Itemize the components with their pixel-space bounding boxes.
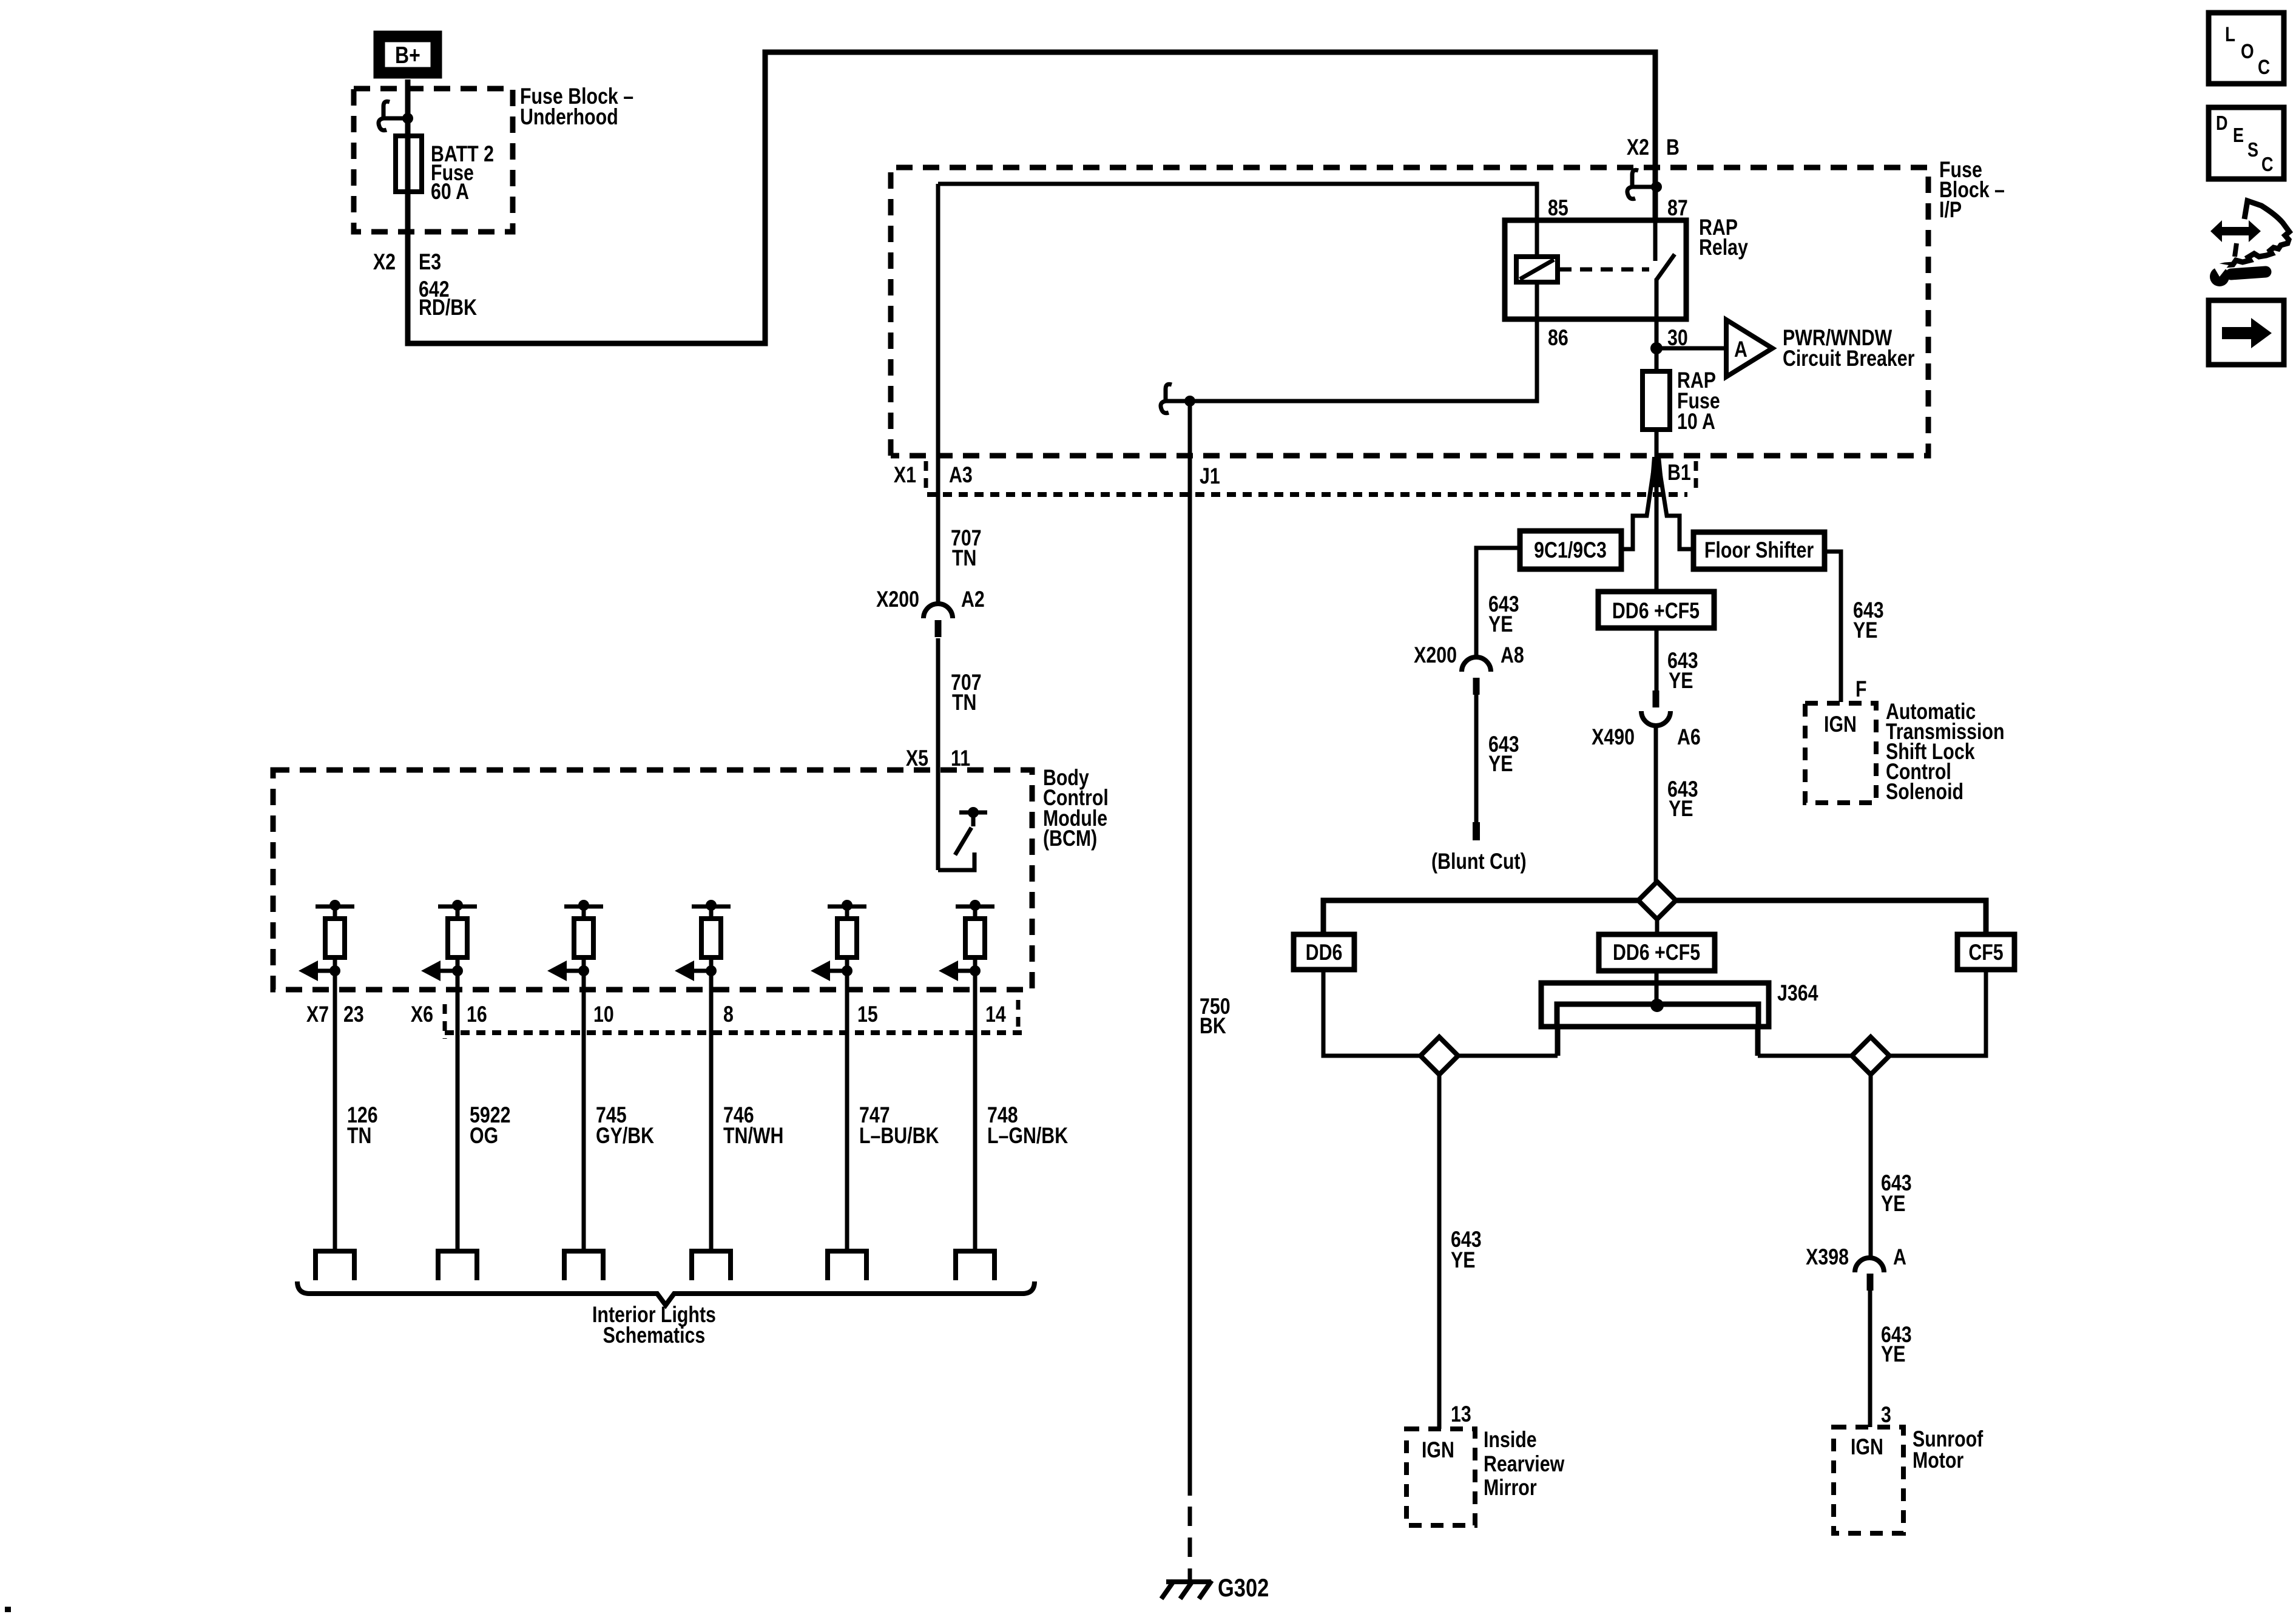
output arrow 5 [811, 960, 853, 981]
wire J1 to G302 [1188, 401, 1192, 1496]
svg-text:A: A [1734, 337, 1747, 362]
wire label 643 YE [1881, 1170, 1912, 1217]
svg-text:23: 23 [343, 1002, 364, 1027]
svg-text:X1: X1 [894, 462, 916, 488]
connector X398 A symbol [1855, 1258, 1884, 1291]
svg-text:Relay: Relay [1699, 235, 1748, 260]
svg-text:YE: YE [1488, 612, 1513, 637]
svg-text:X200: X200 [876, 587, 919, 612]
svg-text:DD6 +CF5: DD6 +CF5 [1613, 940, 1700, 965]
connector X200 A2 symbol [923, 604, 953, 637]
svg-text:IGN: IGN [1422, 1437, 1454, 1463]
wire 748 L–GN/BK [973, 957, 977, 1251]
svg-text:A2: A2 [961, 587, 985, 612]
svg-text:GY/BK: GY/BK [596, 1123, 655, 1149]
svg-text:DD6 +CF5: DD6 +CF5 [1612, 598, 1700, 624]
svg-text:A: A [1893, 1244, 1906, 1270]
icon diagnostic jumper [2210, 201, 2289, 286]
svg-text:A8: A8 [1501, 643, 1524, 668]
page mark dot [5, 1607, 11, 1612]
svg-text:Motor: Motor [1913, 1448, 1963, 1473]
pin 13 label [1451, 1402, 1471, 1427]
BCM pin labels X7 23 X6 16 10 8 15 14 [306, 1000, 1018, 1039]
wire label 745 GY/BK [596, 1102, 655, 1149]
net box CF5 [1957, 934, 2014, 970]
connector X5 pin 11 labels [906, 746, 970, 771]
label RAP Fuse 10 A [1677, 368, 1720, 434]
wire label 642 RD/BK [419, 277, 478, 320]
splice pack J364 [1541, 983, 1769, 1056]
wire A8 to blunt cut [1474, 695, 1479, 822]
svg-text:J1: J1 [1200, 464, 1220, 489]
wire label 750 BK [1200, 994, 1231, 1039]
output arrow 1 [299, 960, 340, 981]
BCM output 1: node bar [316, 900, 354, 911]
svg-text:B1: B1 [1667, 460, 1691, 485]
wire 5922 OG [456, 957, 460, 1251]
branch wedge at B1 [1620, 457, 1693, 549]
svg-text:X2: X2 [373, 249, 396, 275]
svg-text:YE: YE [1853, 618, 1877, 643]
svg-text:YE: YE [1881, 1191, 1905, 1217]
svg-text:RD/BK: RD/BK [419, 295, 478, 320]
net box DD6 [1294, 934, 1354, 970]
connector X1 pin A3 labels [894, 461, 973, 490]
svg-text:Floor Shifter: Floor Shifter [1704, 538, 1814, 563]
svg-text:DD6: DD6 [1306, 940, 1343, 965]
connector pin B1 label [1667, 460, 1696, 490]
svg-text:(Blunt Cut): (Blunt Cut) [1431, 849, 1527, 874]
svg-text:Schematics: Schematics [603, 1323, 706, 1348]
splice diamond right [1852, 1037, 1889, 1075]
BCM output 5: node bar [828, 900, 866, 911]
wire label 643 YE [1881, 1322, 1912, 1367]
power feed B+ terminal [379, 36, 436, 73]
svg-text:3: 3 [1881, 1402, 1891, 1428]
wire right diamond to CF5 [1889, 970, 1986, 1056]
fuse block I/P dashed box [891, 167, 1928, 456]
svg-text:87: 87 [1667, 195, 1688, 221]
label J364 [1777, 981, 1818, 1006]
svg-text:YE: YE [1669, 796, 1693, 822]
connector X200 pin A8 labels [1414, 643, 1524, 668]
svg-text:X490: X490 [1592, 724, 1635, 750]
fuse RAP 10A [1643, 371, 1670, 430]
terminal 1 [316, 1251, 354, 1280]
svg-text:X7: X7 [306, 1002, 329, 1027]
wire to relay pin 85 [938, 184, 1537, 870]
output arrow 6 [939, 960, 981, 981]
blunt cut terminal [1473, 822, 1480, 840]
label BATT 2 Fuse 60 A [431, 141, 494, 204]
wire label 643 YE [1451, 1227, 1482, 1273]
svg-text:C: C [2258, 55, 2270, 78]
wire to inside rearview mirror [1437, 1075, 1442, 1429]
relay switch blade pin 87 to 30 [1655, 220, 1675, 319]
resistor R4 [701, 906, 721, 957]
wire 126 TN [333, 957, 337, 1251]
label PWR/WNDW Circuit Breaker [1783, 325, 1914, 371]
label RAP Relay [1699, 215, 1748, 260]
fuse BATT 2 60A [396, 136, 422, 192]
wire pin 30 down [1655, 319, 1659, 371]
net box DD6 +CF5 lower [1599, 919, 1715, 971]
svg-text:X6: X6 [411, 1002, 433, 1027]
svg-text:IGN: IGN [1824, 712, 1857, 737]
wire into J364 [1655, 971, 1659, 1005]
wire label 747 L–BU/BK [859, 1102, 939, 1149]
wire 745 GY/BK [582, 957, 586, 1251]
terminal clip at B+ feed [379, 101, 413, 130]
svg-text:O: O [2241, 39, 2254, 62]
wire label 707 TN upper [951, 525, 982, 571]
splice diamond top [1638, 882, 1676, 919]
resistor R3 [574, 906, 593, 957]
icon DESC [2209, 107, 2284, 179]
resistor R6 [965, 906, 985, 957]
wire left diamond to J364 [1458, 1054, 1558, 1058]
connector X2 pin E3 labels [373, 249, 441, 275]
BCM internal switch [938, 807, 987, 870]
connector X200 A8 symbol [1462, 657, 1491, 695]
dashed wire to ground [1188, 1507, 1192, 1582]
wire Floor Shifter to solenoid [1825, 552, 1841, 702]
label Fuse Block I/P [1939, 157, 2005, 223]
svg-text:10: 10 [593, 1002, 614, 1027]
wire X490 to splice diamond [1654, 726, 1658, 882]
svg-text:IGN: IGN [1851, 1434, 1883, 1460]
net box 9C1/9C3 [1520, 531, 1621, 569]
svg-text:B: B [1666, 135, 1680, 160]
splice diamond left [1420, 1037, 1458, 1075]
svg-text:X200: X200 [1414, 643, 1457, 668]
BCM connector row dashed boundary [445, 1030, 1022, 1035]
wire DD6 to left diamond [1323, 970, 1420, 1056]
svg-text:BK: BK [1200, 1013, 1226, 1039]
terminal 5 [828, 1251, 866, 1280]
svg-text:YE: YE [1488, 751, 1513, 777]
wire fuse to B1 [1655, 430, 1659, 457]
label (Blunt Cut) [1431, 849, 1527, 874]
svg-text:L–BU/BK: L–BU/BK [859, 1123, 939, 1149]
BCM output 4: node bar [692, 900, 731, 911]
svg-text:L: L [2225, 22, 2235, 46]
svg-text:YE: YE [1881, 1342, 1905, 1367]
svg-text:TN: TN [952, 690, 976, 715]
fuse block underhood dashed box [354, 89, 513, 232]
svg-text:X2: X2 [1627, 135, 1649, 160]
svg-text:(BCM): (BCM) [1043, 826, 1097, 851]
wire 9C1/9C3 to X200 A8 [1476, 548, 1520, 658]
svg-text:85: 85 [1548, 195, 1568, 221]
terminal 3 [564, 1251, 603, 1280]
wire label 643 YE [1488, 732, 1519, 777]
svg-text:A6: A6 [1677, 724, 1701, 750]
icon LOC [2209, 13, 2284, 84]
splice J1 clip and junction [1161, 384, 1195, 413]
output arrow 2 [421, 960, 463, 981]
svg-text:B+: B+ [395, 42, 420, 69]
svg-text:13: 13 [1451, 1402, 1471, 1427]
wire to X398 [1869, 1075, 1873, 1258]
body control module dashed box [273, 770, 1032, 990]
svg-text:F: F [1855, 677, 1867, 702]
svg-text:J364: J364 [1777, 981, 1818, 1006]
connector X2 pin B labels [1627, 135, 1680, 160]
output arrow 4 [675, 960, 717, 981]
resistor R5 [837, 906, 857, 957]
svg-text:16: 16 [467, 1002, 487, 1027]
wire label 643 YE [1853, 598, 1884, 643]
svg-text:Circuit Breaker: Circuit Breaker [1783, 346, 1914, 371]
label Fuse Block Underhood [520, 84, 633, 130]
svg-text:I/P: I/P [1939, 197, 1962, 223]
svg-text:E3: E3 [419, 249, 441, 275]
relay actuation dashed link [1559, 268, 1649, 272]
svg-text:D: D [2216, 113, 2228, 135]
svg-text:S: S [2247, 140, 2258, 161]
label Inside Rearview Mirror [1484, 1427, 1565, 1501]
svg-text:8: 8 [723, 1002, 734, 1027]
terminal 2 [438, 1251, 477, 1280]
svg-text:86: 86 [1548, 325, 1568, 351]
terminal 6 [956, 1251, 994, 1280]
svg-text:L–GN/BK: L–GN/BK [987, 1123, 1069, 1149]
svg-text:TN/WH: TN/WH [723, 1123, 783, 1149]
wire label 707 TN lower [951, 670, 982, 715]
label G302 [1218, 1574, 1269, 1602]
wire label 5922 OG [470, 1102, 510, 1149]
connector X490 A6 symbol [1641, 690, 1670, 726]
svg-text:10 A: 10 A [1677, 409, 1715, 434]
splice label J1 [1200, 464, 1220, 489]
PWR/WNDW circuit breaker triangle A [1726, 320, 1772, 377]
BCM output 6: node bar [956, 900, 994, 911]
svg-text:15: 15 [857, 1002, 878, 1027]
wire label 748 L–GN/BK [987, 1102, 1069, 1149]
bus wire DD6 to CF5 [1323, 900, 1986, 934]
svg-text:TN: TN [347, 1123, 371, 1149]
connector X490 pin A6 labels [1592, 724, 1701, 750]
svg-text:Rearview: Rearview [1484, 1451, 1565, 1477]
pin F label [1855, 677, 1867, 702]
svg-text:X398: X398 [1806, 1244, 1849, 1270]
svg-text:14: 14 [985, 1002, 1006, 1027]
pin 3 label [1881, 1402, 1891, 1428]
svg-text:G302: G302 [1218, 1574, 1269, 1602]
relay pin labels 86 30 [1548, 325, 1688, 351]
icon forward arrow [2209, 300, 2284, 365]
relay coil [1516, 220, 1558, 319]
wire B+ to BATT 2 fuse trunk [408, 52, 1655, 343]
BCM output 3: node bar [564, 900, 603, 911]
resistor R1 [325, 906, 345, 957]
svg-text:OG: OG [470, 1123, 498, 1149]
wire B1 to DD6+CF5 [1655, 458, 1659, 592]
svg-text:YE: YE [1669, 668, 1693, 694]
wire DD6+CF5 to X490 [1655, 628, 1659, 690]
svg-text:Solenoid: Solenoid [1886, 779, 1963, 805]
RAP relay box U84 [1505, 220, 1686, 319]
wire pin 86 to J1 splice [1190, 319, 1537, 401]
label Automatic Transmission Shift Lock Control Solenoid [1886, 699, 2005, 805]
net box DD6 +CF5 upper [1598, 592, 1714, 628]
net box Floor Shifter [1693, 532, 1825, 569]
svg-text:C: C [2261, 154, 2274, 176]
svg-text:E: E [2233, 125, 2244, 147]
wire label 126 TN [347, 1102, 378, 1149]
resistor R2 [448, 906, 467, 957]
svg-text:Underhood: Underhood [520, 104, 618, 130]
wire X398 to sunroof motor [1868, 1291, 1872, 1427]
svg-text:60 A: 60 A [431, 179, 469, 204]
svg-text:YE: YE [1451, 1247, 1475, 1273]
wire 746 TN/WH [709, 957, 714, 1251]
wire J364 to right diamond [1758, 1054, 1852, 1058]
connector X398 pin A labels [1806, 1244, 1906, 1270]
svg-text:TN: TN [952, 545, 976, 571]
label Body Control Module (BCM) [1043, 765, 1109, 851]
svg-text:9C1/9C3: 9C1/9C3 [1534, 538, 1607, 563]
output arrow 3 [547, 960, 589, 981]
wire label 643 YE [1667, 648, 1698, 694]
svg-text:A3: A3 [949, 462, 973, 488]
label Interior Lights Schematics [592, 1302, 716, 1348]
svg-text:Inside: Inside [1484, 1427, 1537, 1453]
terminal clip at relay 87 feed [1627, 170, 1662, 198]
relay pin labels 85 87 [1548, 195, 1688, 221]
ground G302 [1161, 1581, 1212, 1599]
connector row dashed boundary [927, 492, 1687, 497]
wire label 746 TN/WH [723, 1102, 783, 1149]
label Sunroof Motor [1913, 1426, 1984, 1473]
IGN box inside rearview mirror [1406, 1429, 1475, 1525]
node at pin 30 / breaker tap [1650, 342, 1726, 354]
IGN box automatic transmission shift lock control solenoid [1805, 703, 1876, 803]
wire label 643 YE [1488, 592, 1519, 637]
connector X200 pin A2 labels [876, 587, 985, 612]
svg-text:CF5: CF5 [1968, 940, 2003, 965]
brace interior lights [297, 1281, 1035, 1305]
svg-text:Mirror: Mirror [1484, 1475, 1537, 1501]
IGN box sunroof motor [1834, 1427, 1903, 1533]
terminal 4 [692, 1251, 731, 1280]
BCM output 2: node bar [438, 900, 477, 911]
wire 747 L–BU/BK [845, 957, 849, 1251]
wire label 643 YE [1667, 777, 1698, 822]
